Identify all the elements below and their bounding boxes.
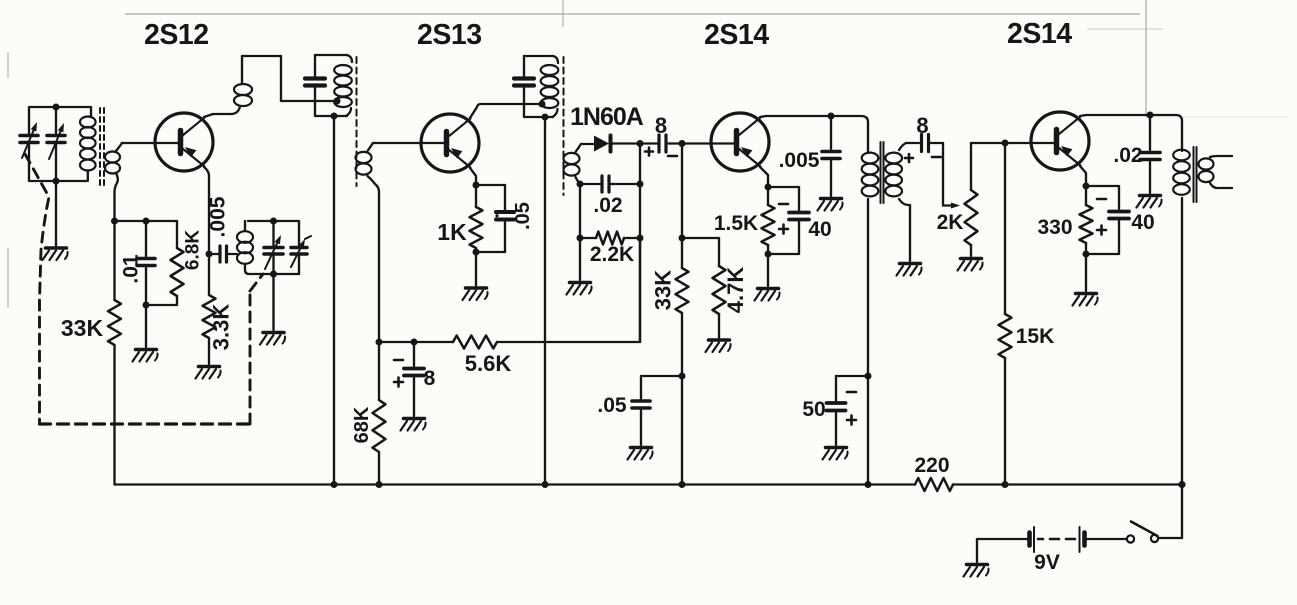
svg-text:.05: .05 xyxy=(512,202,534,230)
svg-text:50: 50 xyxy=(802,398,825,421)
svg-text:1K: 1K xyxy=(437,219,467,245)
svg-text:4.7K: 4.7K xyxy=(723,267,748,314)
svg-text:2S14: 2S14 xyxy=(1007,18,1072,50)
svg-text:.02: .02 xyxy=(593,194,622,217)
svg-text:5.6K: 5.6K xyxy=(465,351,512,376)
svg-text:6.8K: 6.8K xyxy=(183,230,204,270)
svg-text:1.5K: 1.5K xyxy=(714,212,758,235)
svg-text:220: 220 xyxy=(914,454,949,477)
svg-text:15K: 15K xyxy=(1016,325,1055,348)
svg-text:9V: 9V xyxy=(1034,551,1060,574)
svg-text:.05: .05 xyxy=(597,394,627,417)
svg-text:.01: .01 xyxy=(119,254,142,284)
svg-text:40: 40 xyxy=(808,218,831,241)
svg-text:.005: .005 xyxy=(779,149,820,172)
svg-text:40: 40 xyxy=(1131,211,1154,234)
svg-text:2S12: 2S12 xyxy=(144,19,209,51)
svg-text:3.3K: 3.3K xyxy=(209,304,234,351)
svg-text:2.2K: 2.2K xyxy=(590,243,634,266)
svg-text:8: 8 xyxy=(424,367,436,390)
svg-text:8: 8 xyxy=(916,113,928,138)
svg-text:2S14: 2S14 xyxy=(704,19,769,51)
svg-text:.02: .02 xyxy=(1113,144,1142,167)
svg-text:2K: 2K xyxy=(937,211,964,234)
svg-text:.005: .005 xyxy=(206,196,229,237)
svg-text:2S13: 2S13 xyxy=(417,19,482,51)
svg-text:8: 8 xyxy=(655,113,667,138)
svg-text:1N60A: 1N60A xyxy=(570,103,644,131)
svg-text:330: 330 xyxy=(1037,216,1072,239)
svg-text:68K: 68K xyxy=(351,406,373,443)
svg-text:33K: 33K xyxy=(651,270,676,310)
svg-text:33K: 33K xyxy=(61,315,104,341)
